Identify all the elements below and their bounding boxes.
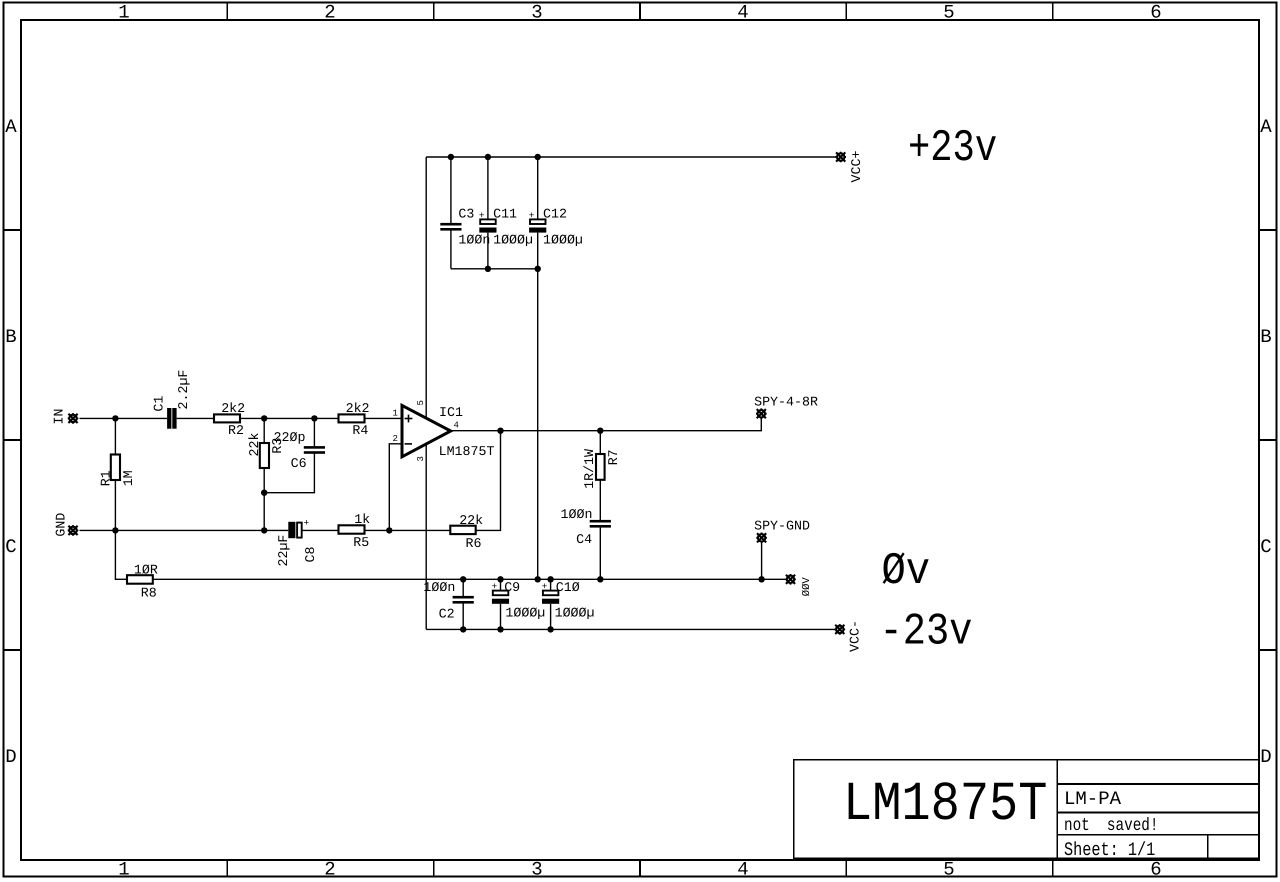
capacitor C11 bbox=[480, 219, 496, 224]
wire C9 top stub bbox=[500, 579, 502, 590]
junction node C11 bottom rail bbox=[485, 266, 491, 272]
junction node R1/GND bbox=[112, 527, 118, 533]
svg-text:C11: C11 bbox=[493, 207, 517, 222]
svg-text:1ØR: 1ØR bbox=[134, 563, 158, 578]
junction node output/feedback bbox=[497, 428, 503, 434]
svg-text:Sheet: 1/1: Sheet: 1/1 bbox=[1064, 839, 1155, 861]
svg-text:1ØØØµ: 1ØØØµ bbox=[493, 232, 533, 247]
svg-text:+: + bbox=[304, 518, 310, 529]
wire C10 bottom stub bbox=[550, 604, 552, 630]
pin VCC+ bbox=[835, 152, 846, 163]
wire 0V rail bbox=[153, 578, 786, 580]
svg-text:-23v: -23v bbox=[880, 607, 973, 658]
svg-text:A: A bbox=[1260, 116, 1272, 138]
wire pin5 V+ bbox=[425, 157, 427, 420]
svg-text:R6: R6 bbox=[466, 536, 482, 551]
svg-text:4: 4 bbox=[737, 859, 748, 881]
svg-text:GND: GND bbox=[53, 513, 68, 537]
frame column labels top bbox=[118, 2, 1161, 24]
junction node C3 top rail bbox=[448, 154, 454, 160]
wire C2 bottom stub bbox=[462, 602, 464, 630]
wire R4 to pin1 bbox=[365, 417, 403, 419]
svg-text:1ØØn: 1ØØn bbox=[423, 580, 455, 595]
wire C12 top stub bbox=[537, 157, 539, 219]
wire C8 to R5 bbox=[302, 529, 338, 531]
svg-text:1ØØn: 1ØØn bbox=[561, 507, 593, 522]
capacitor C8 bbox=[288, 522, 295, 538]
svg-text:1k: 1k bbox=[354, 512, 370, 527]
wire C12 bottom long riser to 0V bbox=[537, 233, 539, 580]
svg-text:R7: R7 bbox=[606, 449, 621, 465]
svg-text:1: 1 bbox=[118, 859, 129, 881]
wire C2 top stub bbox=[462, 579, 464, 596]
frame row labels left bbox=[5, 116, 17, 768]
junction node C10/VCC- bbox=[547, 626, 553, 632]
capacitor C3 bbox=[440, 223, 461, 226]
svg-text:22k: 22k bbox=[247, 433, 262, 457]
resistor R4 bbox=[339, 414, 365, 422]
resistor R1 bbox=[111, 455, 120, 481]
svg-text:3: 3 bbox=[531, 859, 542, 881]
svg-text:6: 6 bbox=[1150, 859, 1161, 881]
svg-text:R8: R8 bbox=[141, 586, 157, 601]
wire top supply rail bbox=[426, 156, 836, 158]
svg-text:+: + bbox=[479, 210, 485, 221]
svg-text:C12: C12 bbox=[543, 207, 567, 222]
junction node R3/C6 bottom bbox=[261, 490, 267, 496]
junction node C2/0V bbox=[460, 576, 466, 582]
wire C10 top stub bbox=[550, 579, 552, 590]
svg-text:3: 3 bbox=[416, 456, 426, 461]
frame column labels bottom bbox=[118, 859, 1161, 881]
junction node SPY-GND/0V bbox=[758, 576, 764, 582]
wire C1 to R2 bbox=[177, 417, 214, 419]
svg-text:5: 5 bbox=[943, 2, 954, 24]
svg-text:+23v: +23v bbox=[908, 123, 997, 174]
capacitor C12 bbox=[530, 219, 546, 224]
op-amp IC1 bbox=[402, 405, 451, 456]
svg-text:1: 1 bbox=[393, 409, 398, 419]
frame row ticks right bbox=[1259, 230, 1277, 650]
svg-text:C: C bbox=[5, 536, 16, 558]
svg-text:+: + bbox=[492, 581, 498, 592]
pin GND bbox=[68, 525, 79, 536]
svg-text:C: C bbox=[1260, 536, 1271, 558]
svg-text:B: B bbox=[5, 326, 16, 348]
junction node C2/VCC- bbox=[460, 626, 466, 632]
svg-text:D: D bbox=[5, 746, 16, 768]
wire R5 to R6 bbox=[365, 529, 451, 531]
svg-text:1ØØØµ: 1ØØØµ bbox=[505, 606, 545, 621]
wire R7 top bbox=[599, 431, 601, 454]
pin IN bbox=[68, 413, 79, 424]
frame row ticks left bbox=[4, 230, 22, 650]
pin SPY-GND bbox=[756, 533, 767, 544]
wire pin2 stub bbox=[389, 444, 402, 531]
capacitor C1 bbox=[167, 408, 171, 429]
svg-text:2.2µF: 2.2µF bbox=[176, 370, 191, 410]
wire R2 to R4 bbox=[240, 417, 338, 419]
wire SPY-GND stub bbox=[761, 542, 763, 580]
resistor R8 bbox=[127, 575, 153, 584]
svg-text:LM1875T: LM1875T bbox=[843, 773, 1047, 836]
svg-text:C4: C4 bbox=[576, 532, 592, 547]
frame column ticks bottom bbox=[227, 860, 1052, 877]
capacitor C6 bbox=[304, 446, 325, 449]
svg-text:1M: 1M bbox=[121, 470, 136, 486]
junction node riser/0V bbox=[535, 576, 541, 582]
svg-text:5: 5 bbox=[943, 859, 954, 881]
title block bbox=[794, 760, 1259, 859]
resistor R3 bbox=[260, 443, 269, 468]
svg-text:Øv: Øv bbox=[882, 546, 931, 597]
wire pin3 V- bbox=[425, 442, 427, 629]
pin 0V bbox=[785, 574, 796, 585]
junction node output/R7 bbox=[597, 428, 603, 434]
wire R6 to feedback riser bbox=[476, 431, 501, 531]
svg-text:C8: C8 bbox=[303, 547, 318, 563]
junction node C6 top bbox=[311, 415, 317, 421]
svg-text:C1Ø: C1Ø bbox=[556, 580, 580, 595]
svg-text:LM-PA: LM-PA bbox=[1064, 788, 1122, 810]
junction node C11 top rail bbox=[485, 154, 491, 160]
svg-text:2: 2 bbox=[324, 2, 335, 24]
svg-text:+: + bbox=[529, 210, 535, 221]
svg-text:not saved!: not saved! bbox=[1064, 816, 1158, 836]
capacitor C2 bbox=[453, 596, 474, 599]
svg-text:VCC-: VCC- bbox=[848, 620, 863, 652]
frame row labels right bbox=[1260, 116, 1272, 768]
wire C3 top stub bbox=[450, 157, 452, 223]
wire R1 top bbox=[114, 418, 116, 454]
svg-text:1ØØØµ: 1ØØØµ bbox=[555, 606, 595, 621]
wire R3 bottom bbox=[263, 468, 265, 530]
svg-text:B: B bbox=[1260, 326, 1271, 348]
svg-text:2: 2 bbox=[393, 434, 398, 444]
resistor R7 bbox=[596, 454, 605, 480]
junction node C12 top rail bbox=[535, 154, 541, 160]
wire R3 top bbox=[263, 418, 265, 443]
wire C3 bottom stub bbox=[450, 231, 452, 269]
svg-text:1R/1W: 1R/1W bbox=[582, 449, 597, 489]
junction node C10/0V bbox=[547, 576, 553, 582]
svg-text:R4: R4 bbox=[352, 423, 368, 438]
junction node IN/R1 bbox=[112, 415, 118, 421]
wire C6 bottom bbox=[264, 454, 314, 493]
wire C11 bottom stub bbox=[487, 233, 489, 269]
svg-text:+: + bbox=[542, 581, 548, 592]
capacitor C10 bbox=[543, 591, 559, 596]
wire VCC- bottom rail bbox=[426, 628, 835, 630]
junction node C9/0V bbox=[497, 576, 503, 582]
svg-text:2k2: 2k2 bbox=[221, 401, 245, 416]
svg-text:SPY-4-8R: SPY-4-8R bbox=[754, 395, 818, 410]
svg-text:1: 1 bbox=[118, 2, 129, 24]
svg-text:D: D bbox=[1260, 746, 1271, 768]
svg-text:5: 5 bbox=[416, 400, 426, 405]
svg-text:VCC+: VCC+ bbox=[849, 151, 864, 183]
junction node pin2/R5/R6 bbox=[386, 527, 392, 533]
wire output net bbox=[451, 418, 762, 431]
svg-text:C6: C6 bbox=[291, 456, 307, 471]
svg-text:C1: C1 bbox=[151, 396, 166, 412]
svg-text:C3: C3 bbox=[458, 207, 474, 222]
wire R1 bottom to R8 corner bbox=[115, 480, 127, 579]
svg-text:R1: R1 bbox=[98, 470, 113, 486]
svg-text:IN: IN bbox=[51, 409, 66, 425]
wire IN net horizontal bbox=[80, 417, 168, 419]
svg-text:1ØØØµ: 1ØØØµ bbox=[543, 232, 583, 247]
svg-text:R3: R3 bbox=[270, 438, 285, 454]
pin SPY-4-8R bbox=[756, 408, 767, 419]
svg-text:R5: R5 bbox=[353, 535, 369, 550]
junction node R3/GND bbox=[261, 527, 267, 533]
junction node R2/R3 bbox=[261, 415, 267, 421]
wire cap bottom rail bbox=[451, 268, 538, 270]
svg-text:A: A bbox=[5, 116, 17, 138]
svg-text:C9: C9 bbox=[504, 580, 520, 595]
svg-text:2: 2 bbox=[324, 859, 335, 881]
resistor R6 bbox=[450, 526, 475, 534]
svg-text:IC1: IC1 bbox=[439, 405, 463, 420]
svg-text:22µF: 22µF bbox=[276, 535, 291, 567]
wire C4 bottom bbox=[599, 528, 601, 580]
resistor R5 bbox=[339, 525, 365, 533]
junction node C4/0V bbox=[597, 576, 603, 582]
svg-text:ØØV: ØØV bbox=[801, 577, 813, 597]
svg-text:R2: R2 bbox=[228, 423, 244, 438]
pin VCC- bbox=[835, 624, 846, 635]
svg-text:4: 4 bbox=[737, 2, 748, 24]
wire C11 top stub bbox=[487, 157, 489, 219]
svg-text:C2: C2 bbox=[439, 607, 455, 622]
svg-text:1ØØn: 1ØØn bbox=[458, 232, 490, 247]
svg-text:LM1875T: LM1875T bbox=[439, 444, 495, 459]
capacitor C4 bbox=[590, 520, 611, 523]
frame column ticks top bbox=[227, 3, 1052, 21]
resistor R2 bbox=[214, 414, 240, 422]
wire GND rail left bbox=[80, 529, 289, 531]
wire R7 to C4 bbox=[599, 480, 601, 520]
junction node C9/VCC- bbox=[497, 626, 503, 632]
wire C6 top bbox=[313, 418, 315, 446]
svg-text:22k: 22k bbox=[459, 513, 483, 528]
svg-text:2k2: 2k2 bbox=[346, 401, 370, 416]
wire C9 bottom stub bbox=[500, 604, 502, 630]
junction node C12 bottom rail bbox=[535, 266, 541, 272]
svg-text:SPY-GND: SPY-GND bbox=[754, 519, 810, 534]
svg-text:3: 3 bbox=[531, 2, 542, 24]
capacitor C9 bbox=[493, 591, 509, 596]
svg-text:6: 6 bbox=[1150, 2, 1161, 24]
svg-text:4: 4 bbox=[454, 420, 459, 430]
